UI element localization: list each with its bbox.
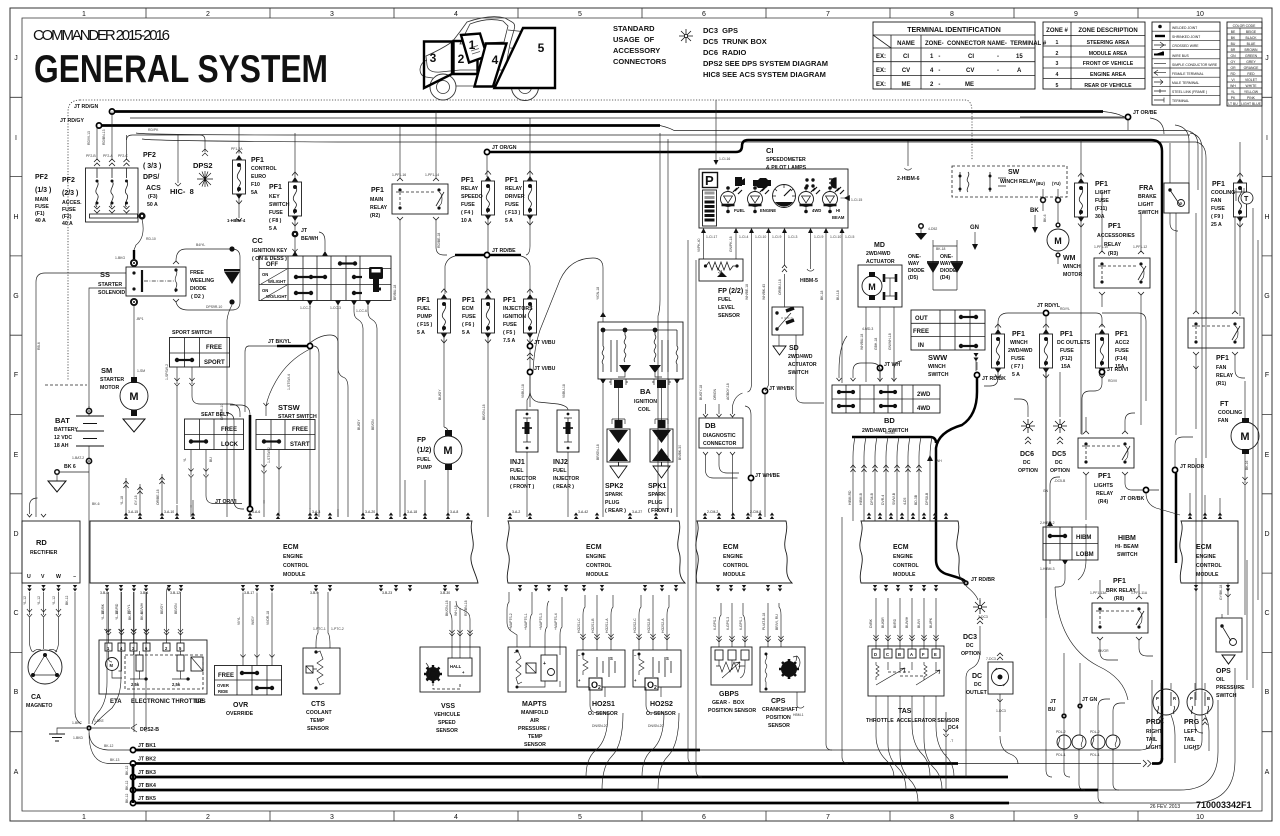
svg-text:3-A-20: 3-A-20 [365,510,375,514]
svg-text:ACCESSORY: ACCESSORY [613,46,660,55]
svg-text:ENGINE: ENGINE [586,554,606,560]
svg-text:2WD: 2WD [917,392,931,398]
svg-text:COOLING: COOLING [1211,190,1235,196]
svg-text:LIGHT: LIGHT [1184,745,1200,751]
svg-text:WELDED JOINT: WELDED JOINT [1172,26,1197,30]
svg-text:3-A-3: 3-A-3 [312,510,320,514]
svg-text:STARTER: STARTER [98,282,122,288]
svg-text:BK-12: BK-12 [125,793,129,803]
node PF2 fuse box F1 F2 F3 [86,168,139,222]
svg-text:SPK2: SPK2 [605,483,623,490]
svg-text:LIGHT: LIGHT [1146,745,1162,751]
svg-text:BK 6: BK 6 [64,464,76,470]
svg-text:MD: MD [874,242,885,249]
svg-text:BK-12: BK-12 [104,744,114,748]
svg-text:BU/WH: BU/WH [905,616,909,628]
svg-text:SWITCH: SWITCH [1216,693,1237,699]
svg-text:IGNITION: IGNITION [503,314,526,320]
svg-text:ECM: ECM [283,544,299,551]
svg-text:HO2S1-A: HO2S1-A [605,618,609,633]
svg-text:S: S [666,656,669,661]
wire ECM fuse down [487,337,489,517]
svg-text:J: J [14,55,18,62]
bus link vertical [132,764,135,803]
svg-text:A: A [14,769,19,776]
svg-text:CV: CV [966,68,974,74]
svg-text:BR/VI, RU: BR/VI, RU [775,614,779,630]
svg-text:VSS: VSS [441,703,455,710]
fuel pump icon [735,177,745,186]
svg-text:CI: CI [766,146,774,155]
svg-text:EX:: EX: [876,54,886,60]
svg-text:CC: CC [252,236,263,245]
svg-text:(R8): (R8) [1114,596,1124,602]
svg-text:O: O [591,680,598,690]
svg-text:STEEL LINK (FRAME ): STEEL LINK (FRAME ) [1172,90,1207,94]
svg-text:JT RD/VI: JT RD/VI [1107,367,1129,373]
fuse PF1 FUEL PUMP F15 [438,289,451,343]
svg-text:5 A: 5 A [462,330,470,336]
svg-text:INJECTOR: INJECTOR [553,476,579,482]
wire into CI top [715,100,717,160]
node PF2 output joint [138,212,145,219]
svg-text:ECM: ECM [723,544,739,551]
svg-text:PF1: PF1 [1012,331,1025,338]
svg-text:F: F [14,372,18,379]
svg-text:LEVEL: LEVEL [718,305,736,311]
svg-text:BK/GN-18: BK/GN-18 [445,600,449,616]
svg-text:2 -: 2 - [930,82,940,88]
svg-text:F: F [922,652,925,657]
svg-text:RECTIFIER: RECTIFIER [30,550,58,556]
svg-text:P: P [1190,696,1193,701]
labels ECM1 bottom pins [100,591,450,595]
svg-text:MODULE: MODULE [893,572,916,578]
svg-text:DB: DB [705,421,716,430]
labels ECM1 pins [128,510,458,514]
svg-text:1-CC-6: 1-CC-6 [356,309,367,313]
svg-text:DC4: DC4 [948,725,958,731]
svg-text:ENGINE: ENGINE [760,208,776,213]
wires BA top feed [600,312,606,317]
svg-text:MODULE: MODULE [723,572,746,578]
svg-text:LOCK: LOCK [221,442,239,448]
svg-text:FUSE: FUSE [1060,348,1074,354]
svg-text:( F5 ): ( F5 ) [503,330,516,336]
svg-text:STSW: STSW [278,403,301,412]
svg-text:BU/VI: BU/VI [917,619,921,628]
svg-text:3: 3 [330,11,334,18]
engine icon [753,178,771,188]
svg-text:(1/3 ): (1/3 ) [35,187,51,194]
svg-text:3-B-9: 3-B-9 [310,591,318,595]
svg-text:2: 2 [654,685,657,691]
svg-text:LIGHT BLUE: LIGHT BLUE [1241,102,1261,106]
svg-text:RIGHT: RIGHT [1146,729,1163,735]
svg-text:AGBOY-18: AGBOY-18 [726,383,730,400]
svg-text:3: 3 [430,51,437,65]
svg-text:3-A-27: 3-A-27 [632,510,642,514]
svg-text:3-B-23: 3-B-23 [382,591,392,595]
svg-text:FUSE: FUSE [505,202,519,208]
wire battery to SS [36,273,126,517]
svg-text:FAN: FAN [1216,365,1227,371]
svg-text:VI/BU-18: VI/BU-18 [562,384,566,398]
svg-text:BN/BK-30: BN/BK-30 [678,445,682,460]
svg-text:BE/YL: BE/YL [127,604,131,614]
svg-text:5: 5 [538,41,545,55]
svg-text:WEELING: WEELING [190,278,214,284]
svg-text:50 A: 50 A [147,202,158,208]
svg-text:SIMPLE CONDUCTOR WIRE: SIMPLE CONDUCTOR WIRE [1172,63,1218,67]
relay PF1 BRK R8 [1106,578,1136,602]
svg-text:GREY: GREY [1246,60,1256,64]
lamp 4WD [799,186,821,213]
svg-text:G: G [1264,293,1269,300]
svg-text:FUSE: FUSE [62,207,76,213]
svg-text:HIC- 8: HIC- 8 [170,187,194,196]
connector DB diagnostic [699,418,743,448]
key icon [369,267,383,292]
svg-text:6: 6 [702,11,706,18]
module ECM1 [90,521,478,583]
svg-text:IGNITION: IGNITION [634,399,657,405]
ground frame [57,728,86,734]
motor WM winch [1055,222,1060,227]
svg-text:26 FEV. 2013: 26 FEV. 2013 [1150,804,1180,810]
svg-text:BE/WH: BE/WH [140,602,144,614]
svg-text:NAME: NAME [897,41,915,47]
svg-text:( F4 ): ( F4 ) [461,210,474,216]
lamp HI BEAM [823,186,845,213]
svg-text:OVR: OVR [233,702,248,709]
svg-text:PINK: PINK [1247,96,1256,100]
svg-text:FUSE: FUSE [1011,356,1025,362]
svg-text:WH-18: WH-18 [454,605,458,616]
svg-text:E: E [934,652,937,657]
svg-text:TERMINAL IDENTIFICATION: TERMINAL IDENTIFICATION [907,27,1001,34]
svg-text:+MAPTS-4: +MAPTS-4 [554,613,558,630]
sensor CPS [760,647,805,692]
svg-text:DC3 GPS: DC3 GPS [703,26,738,35]
svg-text:BAT: BAT [55,416,70,425]
svg-text:ECM: ECM [893,544,909,551]
svg-text:7: 7 [826,11,830,18]
svg-text:PRD: PRD [1146,719,1161,726]
svg-text:START: START [290,442,310,448]
svg-text:SPEEDO: SPEEDO [461,194,483,200]
svg-text:1-HIBM-4: 1-HIBM-4 [227,218,246,223]
svg-text:1: 1 [469,38,476,52]
speedометр dial [773,185,796,208]
joints JT VI/BU x2 [529,337,531,407]
joint JT OR/GN + thick bus to right [484,149,489,154]
svg-text:PF1: PF1 [1108,223,1121,230]
svg-text:BEIGE: BEIGE [1246,30,1257,34]
svg-text:+MAPTS-2: +MAPTS-2 [509,613,513,630]
svg-text:JT RD/BR: JT RD/BR [971,577,995,583]
svg-text:CONTROL: CONTROL [586,563,612,569]
svg-text:CONNECTORS: CONNECTORS [613,57,666,66]
svg-text:HBM-1: HBM-1 [793,713,804,717]
svg-text:6-GPS-3: 6-GPS-3 [726,617,730,630]
svg-text:BLUE: BLUE [1247,42,1257,46]
svg-text:ETA: ETA [110,699,122,705]
svg-text:JT WH/BK: JT WH/BK [769,386,794,392]
svg-text:PRG: PRG [1184,719,1200,726]
svg-text:MOTOR: MOTOR [1063,272,1082,278]
svg-text:(F2): (F2) [62,214,72,220]
joint JT BE/WH [292,231,299,238]
svg-text:PRESSURE /: PRESSURE / [518,726,550,732]
svg-text:(R3): (R3) [1108,251,1118,257]
svg-text:YL-12: YL-12 [52,596,56,605]
svg-text:VEHICULE: VEHICULE [434,712,461,718]
svg-text:WH/BK-43: WH/BK-43 [762,284,766,300]
svg-text:4-D5: 4-D5 [903,498,907,505]
svg-text:BK-12: BK-12 [125,780,129,790]
svg-text:1-STSW-4: 1-STSW-4 [287,374,291,390]
actuator MD [866,242,895,265]
svg-text:JT RD/BE: JT RD/BE [492,248,516,254]
svg-text:1-CI-15: 1-CI-15 [851,198,862,202]
svg-text:(2/3 ): (2/3 ) [62,190,78,197]
svg-text:STANDARD: STANDARD [613,24,655,33]
svg-text:( F13 ): ( F13 ) [505,210,521,216]
relay PF1 MAIN RELAY R2 [370,187,388,219]
svg-text:M: M [110,663,114,668]
svg-text:4WD: 4WD [917,406,931,412]
svg-text:GN: GN [1230,54,1236,58]
svg-text:MODULE: MODULE [1196,572,1219,578]
svg-text:7.5 A: 7.5 A [503,338,515,344]
fuse PF1 INJECTORS IGNITION F5 [524,289,537,343]
svg-text:PF1-2A: PF1-2A [231,147,243,151]
svg-text:( FRONT ): ( FRONT ) [510,484,534,490]
svg-text:SPORT: SPORT [204,360,225,366]
svg-text:CTS: CTS [311,701,325,708]
svg-text:PF1: PF1 [1060,331,1073,338]
svg-text:ENGINE: ENGINE [1196,554,1216,560]
svg-text:ONE-: ONE- [908,254,921,260]
svg-text:YL: YL [1231,90,1235,94]
wire diode down [227,305,232,517]
joint JT RD/BK + thick drop [974,353,979,362]
svg-text:JT BK4: JT BK4 [138,783,156,789]
svg-text:CI: CI [968,54,974,60]
svg-text:2,5k: 2,5k [131,682,140,687]
svg-text:C: C [13,610,18,617]
svg-text:ON: ON [262,288,268,293]
svg-text:SS: SS [100,270,110,279]
svg-text:A: A [1017,68,1022,74]
svg-text:5 A: 5 A [417,330,425,336]
svg-text:(F1): (F1) [35,211,45,217]
svg-text:BU/PK: BU/PK [929,617,933,628]
svg-text:5: 5 [1056,83,1059,89]
svg-text:HO2S2-B: HO2S2-B [647,618,651,633]
svg-text:ME: ME [902,82,911,88]
svg-text:PF1: PF1 [1115,331,1128,338]
svg-text:MANIFOLD: MANIFOLD [521,710,549,716]
svg-text:SENSOR: SENSOR [307,726,329,732]
svg-text:OR: OR [1230,66,1236,70]
svg-text:JT: JT [1050,699,1057,705]
svg-text:PF1: PF1 [371,187,384,194]
svg-text:5: 5 [578,11,582,18]
svg-text:5A: 5A [251,190,258,196]
svg-text:4: 4 [454,814,458,821]
lamp wires to buses [1064,763,1119,803]
svg-text:BE/GN: BE/GN [174,603,178,614]
svg-text:2-HIBM-6: 2-HIBM-6 [897,176,920,182]
svg-text:(R1): (R1) [1216,381,1226,387]
svg-text:OR/GN: OR/GN [713,388,717,400]
svg-text:5: 5 [578,814,582,821]
svg-text:1-PF1-11A: 1-PF1-11A [1131,591,1148,595]
svg-text:YL-12: YL-12 [37,596,41,605]
svg-text:10: 10 [1196,11,1204,18]
magneto CA [28,650,62,684]
svg-text:HIBM-5: HIBM-5 [800,278,818,284]
svg-text:ZONE- CONNECTOR NAME- TERMIN: ZONE- CONNECTOR NAME- TERMINAL # [925,41,1047,47]
svg-text:LT BU: LT BU [1228,102,1238,106]
wheel front [430,74,456,100]
svg-text:9: 9 [1074,11,1078,18]
svg-text:TEMP: TEMP [310,718,325,724]
svg-text:B: B [1265,689,1270,696]
svg-text:5 A: 5 A [1012,372,1020,378]
svg-text:WIRE BUS: WIRE BUS [1172,54,1190,58]
svg-text:E: E [14,452,19,459]
svg-text:JT RD/GN: JT RD/GN [74,104,98,110]
svg-text:P: P [1156,696,1159,701]
svg-text:JT RD/GY: JT RD/GY [60,118,84,124]
svg-text:IGNITION KEY: IGNITION KEY [252,248,288,254]
svg-text:FEMALE TERMINAL: FEMALE TERMINAL [1172,72,1204,76]
svg-text:PF1: PF1 [503,297,516,304]
svg-text:PF1: PF1 [1113,578,1126,585]
svg-text:THROTTLE ACCELERATOR SENSOR: THROTTLE ACCELERATOR SENSOR [866,718,959,724]
svg-text:D: D [874,652,877,657]
svg-text:& PILOT LAMPS: & PILOT LAMPS [766,165,807,171]
svg-text:FUSE: FUSE [461,202,475,208]
svg-text:HIBM: HIBM [1076,535,1091,541]
svg-text:OFF: OFF [266,262,278,268]
connector 2-HIBM-6 [905,141,912,170]
svg-text:HIBM-B: HIBM-B [859,492,863,505]
solenoid SS [126,267,186,296]
svg-text:1-BKE: 1-BKE [94,719,105,723]
svg-text:COLOR CODE: COLOR CODE [1233,24,1257,28]
svg-text:EX:: EX: [876,68,886,74]
svg-text:MODULE: MODULE [586,572,609,578]
svg-text:3-A-2: 3-A-2 [512,510,520,514]
svg-text:-: - [997,68,999,74]
svg-text:1-SM: 1-SM [137,369,145,373]
svg-text:POSITION SENSOR: POSITION SENSOR [708,708,756,714]
svg-text:MODULE: MODULE [283,572,306,578]
svg-text:HO2S1-B: HO2S1-B [591,618,595,633]
svg-text:RELAY: RELAY [505,186,523,192]
svg-text:1-CC-7: 1-CC-7 [300,306,311,310]
svg-text:DVR-4: DVR-4 [881,495,885,505]
svg-text:PK: PK [1231,96,1236,100]
svg-text:DP34-B: DP34-B [870,492,874,505]
svg-text:INJ2: INJ2 [553,459,568,466]
fan wires below BD bus [853,437,932,521]
svg-text:FUSE: FUSE [35,204,49,210]
diode ONE-WAY (D5) [908,254,925,281]
svg-text:SEAT BELT: SEAT BELT [201,412,230,418]
sensor HO2S2 [633,650,681,687]
svg-text:PLUG: PLUG [648,500,662,506]
svg-text:YL: YL [183,458,187,462]
svg-text:RD/BN-13: RD/BN-13 [102,129,106,145]
svg-text:BK-18: BK-18 [820,290,824,300]
svg-text:SOLENOID: SOLENOID [98,290,125,296]
wire fuel pump fuse down to FP [444,337,448,517]
svg-text:8: 8 [950,11,954,18]
svg-text:( FRONT ): ( FRONT ) [648,508,672,514]
sensor HO2S1 [577,650,625,687]
svg-text:−: − [73,574,76,580]
svg-text:JT BK5: JT BK5 [138,796,156,802]
svg-text:W/LIGHT: W/LIGHT [268,279,286,284]
svg-text:HI: HI [836,208,840,213]
svg-text:(D5): (D5) [908,275,918,281]
svg-text:F: F [1265,372,1269,379]
svg-text:VI/BU-18: VI/BU-18 [521,384,525,398]
svg-text:( F15 ): ( F15 ) [417,322,433,328]
svg-text:GN: GN [970,225,979,231]
svg-text:3-B-1: 3-B-1 [100,591,108,595]
svg-text:DI/BK: DI/BK [869,618,873,628]
svg-text:6-GPS-2: 6-GPS-2 [713,617,717,630]
svg-text:DC5: DC5 [1052,451,1066,458]
svg-text:PF2: PF2 [62,177,75,184]
svg-text:3-B-17: 3-B-17 [244,591,254,595]
svg-text:GY: GY [1231,60,1237,64]
svg-text:CONTROL: CONTROL [251,166,277,172]
joint JT RD/BR [963,580,968,585]
svg-text:FREE: FREE [913,329,929,335]
svg-text:FP: FP [417,437,426,444]
svg-text:TEMP: TEMP [528,734,543,740]
svg-text:PF1: PF1 [462,297,475,304]
svg-text:MODULE AREA: MODULE AREA [1089,51,1128,57]
svg-text:AIR: AIR [530,718,539,724]
svg-text:YL-18: YL-18 [120,496,124,505]
joint JT OR/BE [1125,114,1130,119]
svg-text:JT WH/BE: JT WH/BE [755,473,780,479]
svg-text:HO2S2: HO2S2 [650,701,673,708]
svg-text:HIBM-RD: HIBM-RD [848,490,852,505]
svg-text:ACTUATOR: ACTUATOR [866,259,895,265]
svg-text:OR/BE-18: OR/BE-18 [156,489,160,505]
svg-text:2: 2 [458,52,465,66]
wires BD top chevrons [837,378,897,381]
svg-text:OUT: OUT [915,316,928,322]
bus JT OR/VI thick [249,415,252,506]
svg-text:S: S [610,656,613,661]
svg-text:INJECTOR: INJECTOR [510,476,536,482]
svg-text:DC: DC [1055,460,1063,466]
svg-text:15: 15 [1016,54,1023,60]
module ECM4 [860,521,964,583]
svg-text:SW: SW [1008,169,1020,176]
svg-text:BE/GN-18: BE/GN-18 [482,404,486,420]
